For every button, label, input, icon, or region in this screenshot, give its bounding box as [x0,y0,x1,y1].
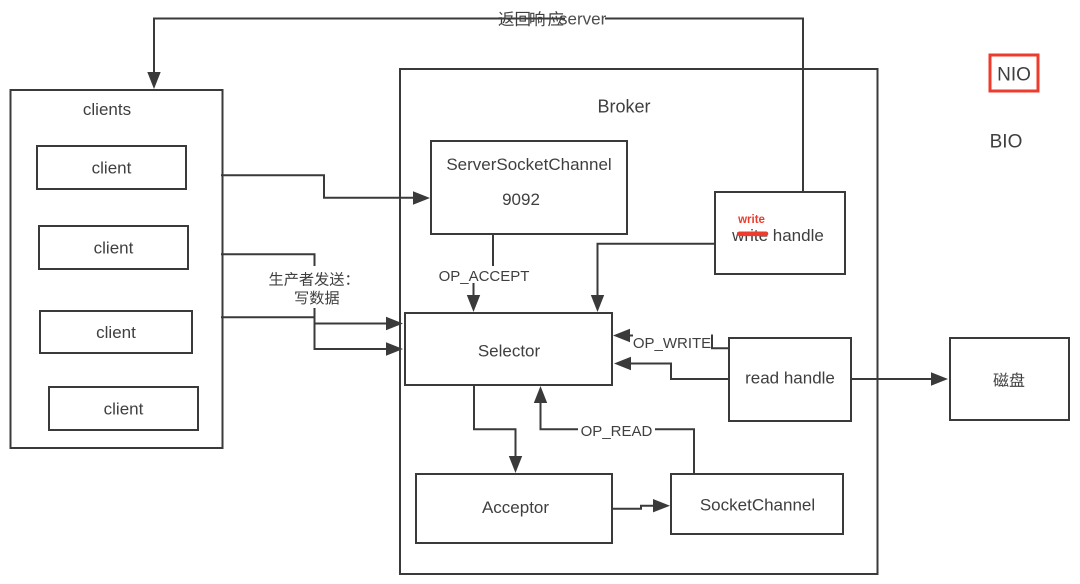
wire Acceptor to SocketChannel [611,506,653,509]
red strikethrough line over the word write [740,232,767,237]
wire read handle to disk [851,378,932,380]
background of producer label [262,266,366,308]
svg-text:write: write [737,214,765,226]
svg-text:Acceptor: Acceptor [482,498,549,517]
svg-text:Broker: Broker [597,97,650,117]
svg-text:SocketChannel: SocketChannel [700,496,815,515]
wire write handle to Selector top [598,244,716,296]
label OP_ACCEPT background [437,266,531,283]
wire client1 to ServerSocketChannel [221,175,414,198]
svg-text:NIO: NIO [997,65,1031,86]
arrowhead down into clients [147,72,160,89]
wire read handle to Selector right [630,364,729,380]
svg-text:Selector: Selector [478,342,541,361]
wire OP_ACCEPT from SSC to Selector [474,234,494,296]
svg-text:server: server [559,10,607,29]
box SocketChannel [671,474,843,534]
label OP_READ background [578,421,655,438]
arrowhead left into Selector lower-right [614,357,631,370]
wire Selector to Acceptor [474,385,516,457]
svg-text:client: client [92,159,132,178]
svg-text:9092: 9092 [502,190,540,209]
arrowhead right into ServerSocketChannel [413,191,430,204]
label 返回响应 return-response [499,11,564,26]
arrowhead down into Selector from write handle [591,295,604,312]
svg-text:BIO: BIO [990,132,1023,153]
label server background [565,12,605,26]
svg-text:OP_READ: OP_READ [581,423,653,440]
wire OP_WRITE read handle to Selector [629,336,729,349]
arrowhead right into Selector upper-left [386,317,403,330]
label 写数据 line 2 [295,291,339,305]
label OP_WRITE background [633,333,711,350]
wire feedback from write handle to clients [154,19,803,194]
box Acceptor [416,474,612,543]
box read handle [729,338,851,421]
box clients (outer) [11,90,223,448]
box disk 磁盘 [950,338,1069,420]
wire client2 to Selector [221,254,387,323]
arrowhead right into disk [931,372,948,385]
arrowhead right into SocketChannel [653,499,670,512]
box client 1 [37,146,186,189]
label 磁盘 disk [993,372,1024,387]
wire client3 to Selector [221,317,387,349]
box write handle [715,192,845,274]
box client 3 [40,311,192,353]
arrowhead up into Selector OP_READ [534,386,547,403]
box ServerSocketChannel [431,141,627,234]
box Broker (outer) [400,69,878,574]
svg-text:client: client [104,400,144,419]
box client 2 [39,226,188,269]
svg-text:read handle: read handle [745,369,835,388]
arrowhead left into Selector OP_WRITE [613,329,630,342]
box Selector [405,313,612,385]
svg-text:client: client [94,239,134,258]
svg-text:client: client [96,323,136,342]
wire OP_READ to Selector bottom [541,402,695,473]
svg-text:OP_ACCEPT: OP_ACCEPT [439,268,530,285]
svg-text:clients: clients [83,100,131,119]
svg-text:OP_WRITE: OP_WRITE [633,335,711,352]
box NIO (red) [990,55,1038,91]
arrowhead down into Selector OP_ACCEPT [467,295,480,312]
svg-text:ServerSocketChannel: ServerSocketChannel [446,155,611,174]
arrowhead right into Selector lower-left [386,342,403,355]
box client 4 [49,387,198,430]
label 生产者发送： line 1 [269,272,349,286]
arrowhead down into Acceptor [509,456,522,473]
